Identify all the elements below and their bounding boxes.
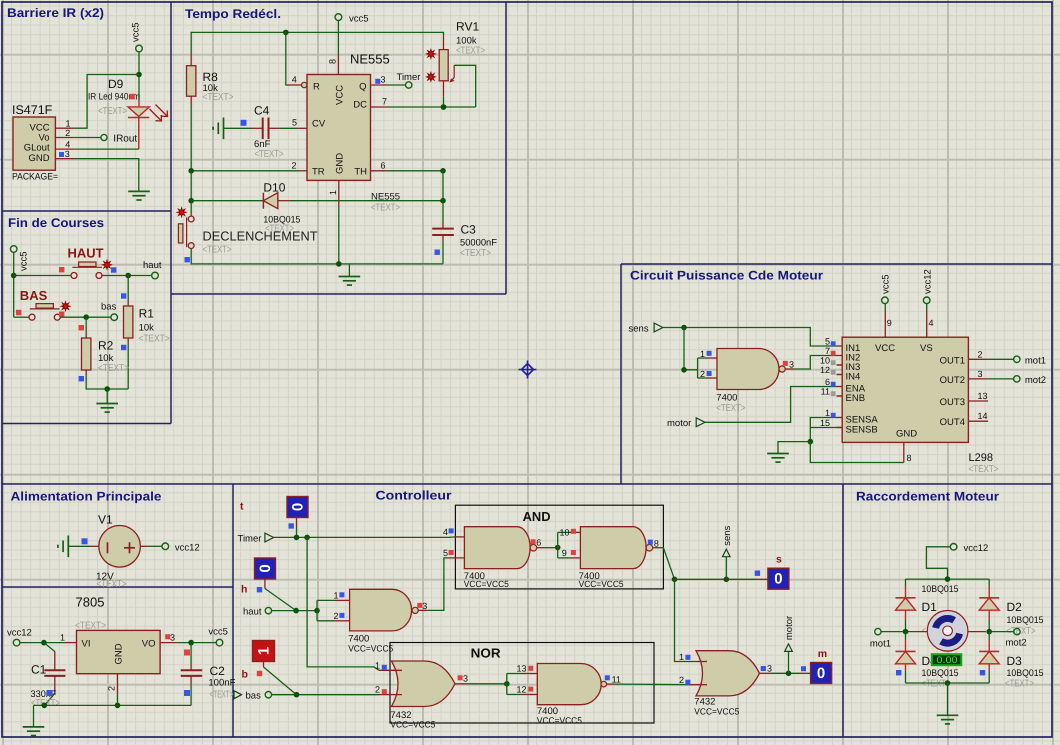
pin state squares R1: [121, 293, 126, 298]
section Controlleur right border: [842, 484, 844, 737]
svg-text:vcc12: vcc12: [922, 269, 933, 294]
ground (Racc): [937, 715, 959, 724]
pin state squares U4: [382, 665, 387, 670]
svg-text:R8: R8: [203, 70, 219, 84]
svg-text:OUT2: OUT2: [940, 375, 965, 386]
svg-text:12: 12: [517, 685, 527, 695]
junction: [441, 104, 447, 110]
svg-text:NE555: NE555: [350, 52, 390, 67]
wire gnd tap (CP): [778, 442, 810, 454]
junction: [945, 576, 951, 582]
svg-text:sens: sens: [722, 525, 733, 545]
pin state squares A1: [449, 528, 454, 533]
pin 1 L298: [825, 408, 842, 418]
wire pin8 GND L298: [810, 442, 898, 463]
power terminal vcc5 (Alim): [208, 627, 228, 646]
svg-text:R2: R2: [98, 339, 114, 353]
pin state squares U3: [339, 592, 344, 597]
wire vcc5 down: [13, 252, 15, 317]
wire gate3 input tie: [316, 600, 318, 620]
wire Timer to NOR gate: [307, 537, 379, 670]
diode D10: [191, 193, 290, 209]
input terminal sens (CP): [629, 323, 663, 334]
junction: [441, 104, 447, 110]
svg-text:3: 3: [381, 75, 386, 85]
svg-text:IN4: IN4: [846, 371, 861, 382]
svg-text:<TEXT>: <TEXT>: [98, 106, 127, 117]
junction: [136, 72, 142, 78]
wire switch to bottom rail: [191, 249, 443, 264]
svg-text:13: 13: [978, 391, 988, 401]
actuator star BAS: [61, 302, 70, 311]
svg-text:6: 6: [825, 377, 830, 387]
nand gate U2 7400 (CP): [706, 349, 794, 390]
wire TR down to trigger net: [190, 171, 192, 201]
pin 8 L298: [898, 442, 912, 463]
svg-text:h: h: [241, 584, 247, 596]
actuator star DECLENCHEMENT: [177, 208, 186, 217]
svg-text:3: 3: [767, 664, 772, 674]
svg-text:9: 9: [887, 318, 892, 328]
pin 3 7805 VO: [160, 632, 177, 642]
svg-text:50000nF: 50000nF: [460, 238, 497, 249]
svg-text:BAS: BAS: [20, 288, 48, 303]
power terminal vcc5 (Barriere): [131, 22, 143, 51]
svg-text:3: 3: [170, 632, 175, 642]
logic probe m: [799, 648, 832, 684]
junction: [188, 168, 194, 174]
svg-text:10: 10: [560, 528, 570, 538]
wire vcc5 to LED: [138, 52, 140, 101]
svg-text:mot2: mot2: [1006, 638, 1027, 649]
junction: [294, 535, 300, 541]
svg-text:Fin de Courses: Fin de Courses: [8, 216, 104, 230]
pin 1 NE555: [328, 180, 339, 207]
svg-text:vcc5: vcc5: [131, 22, 142, 42]
wire haut line: [272, 610, 317, 612]
svg-text:1: 1: [255, 647, 272, 655]
svg-text:VCC: VCC: [875, 343, 895, 354]
LED D9: [128, 101, 168, 121]
svg-text:NOR: NOR: [471, 646, 502, 661]
wire VCC pin to vcc5 rail: [75, 75, 139, 129]
input terminal motor (CP): [667, 418, 705, 429]
wire HAUT to haut terminal: [102, 275, 152, 277]
svg-text:3: 3: [463, 674, 468, 684]
svg-text:VCC=VCC5: VCC=VCC5: [694, 706, 739, 716]
svg-text:14: 14: [978, 411, 988, 421]
nand gate U3 7400 (Controlleur): [335, 589, 428, 631]
svg-text:4: 4: [929, 318, 934, 328]
svg-text:Alimentation Principale: Alimentation Principale: [11, 490, 162, 504]
pin state squares probe m: [761, 666, 766, 671]
resistor R8: [187, 53, 196, 104]
wire top rail R8-RV1: [191, 32, 443, 53]
svg-text:haut: haut: [243, 607, 262, 618]
junction: [504, 681, 510, 687]
svg-text:1: 1: [328, 190, 338, 195]
pin 2 TR NE555: [292, 161, 308, 171]
svg-text:VCC=VCC5: VCC=VCC5: [348, 643, 393, 653]
terminal mot2 (Racc): [1006, 628, 1027, 648]
junction: [11, 273, 17, 279]
section divider Fin de Courses bottom: [2, 423, 171, 425]
diode D4: [896, 632, 916, 683]
svg-text:VO: VO: [142, 639, 156, 650]
svg-text:VS: VS: [920, 343, 933, 354]
svg-text:R: R: [313, 82, 320, 93]
svg-text:5: 5: [292, 118, 297, 128]
junction: [283, 30, 289, 36]
pin 6 TH NE555: [371, 161, 388, 171]
ground (Fin): [96, 404, 118, 413]
pin 11 L298: [821, 387, 843, 397]
svg-text:1: 1: [334, 591, 339, 601]
wire ENB stub: [837, 395, 843, 397]
wire vcc5 to BAS: [14, 316, 29, 318]
pin 3 Q NE555: [371, 75, 388, 86]
pin state square D9: [130, 94, 135, 99]
power terminal vcc12 (CP): [922, 269, 933, 311]
svg-text:sens: sens: [629, 324, 649, 335]
svg-text:10: 10: [820, 356, 830, 366]
svg-text:Timer: Timer: [238, 534, 262, 545]
wire gnd to C4: [224, 127, 253, 129]
svg-text:D10: D10: [263, 181, 285, 195]
svg-text:2: 2: [978, 349, 983, 359]
pin state squares BAS: [16, 310, 21, 315]
wire R1 bottom: [127, 344, 129, 389]
wire sens to IN1: [663, 328, 837, 347]
svg-text:<TEXT>: <TEXT>: [98, 363, 129, 374]
AND sub-box: [455, 505, 663, 589]
ground (Alim): [23, 705, 45, 735]
chip L298: [842, 337, 968, 442]
svg-text:IRout: IRout: [113, 134, 137, 145]
power terminal vcc5 (Tempo): [335, 14, 369, 25]
svg-text:Tempo Redécl.: Tempo Redécl.: [185, 7, 281, 21]
wire sens to gate inputs: [684, 328, 698, 370]
section horizontal divider y=484: [2, 483, 1052, 485]
pin state square C2: [184, 690, 190, 696]
power terminal vcc5 (Fin): [10, 246, 29, 271]
junction: [42, 703, 48, 709]
pin state square D3: [980, 670, 985, 675]
svg-text:11: 11: [821, 387, 830, 397]
pin 4 VS L298: [927, 311, 934, 337]
wire top rail (Racc): [906, 578, 990, 580]
power terminal vcc12 (7805): [7, 628, 32, 646]
svg-text:8: 8: [328, 59, 338, 64]
svg-text:GND: GND: [114, 643, 125, 664]
wire OUT2 to mot2: [988, 378, 1013, 380]
resistor R1: [124, 300, 133, 344]
potentiometer RV1: [439, 36, 454, 96]
wire BAS to bas terminal: [60, 316, 111, 318]
diode D3: [979, 632, 999, 683]
junction: [304, 535, 310, 541]
power terminal vcc12 (Racc): [950, 543, 988, 554]
terminal mot1 (CP): [1014, 355, 1046, 366]
svg-text:<TEXT>: <TEXT>: [969, 464, 999, 475]
probe t stub: [296, 518, 298, 538]
pin state squares VO: [165, 634, 170, 639]
svg-text:motor: motor: [784, 616, 795, 640]
wire C4 to CV: [280, 127, 297, 129]
pin state square V1: [82, 538, 88, 544]
section Tempo right border: [505, 2, 507, 294]
motor M1: [927, 611, 968, 652]
svg-text:3: 3: [422, 601, 427, 611]
diode D2: [979, 579, 999, 632]
junction: [314, 608, 320, 614]
wire LED cathode to GLout net: [138, 118, 140, 150]
svg-text:2: 2: [375, 685, 380, 695]
output arrow sens (Controlleur): [722, 525, 733, 579]
svg-text:<TEXT>: <TEXT>: [456, 46, 485, 57]
chip NE555: [307, 75, 371, 181]
wire gate out to IN2: [794, 356, 837, 370]
wire reset line down: [286, 32, 288, 85]
svg-text:2: 2: [700, 369, 705, 379]
svg-text:b: b: [242, 669, 248, 681]
diode D1: [896, 579, 916, 632]
wire OUT1 to mot1: [988, 358, 1013, 360]
wire SENSB stub: [837, 427, 843, 429]
actuator stars RV1: [426, 49, 435, 58]
svg-text:0: 0: [289, 503, 306, 511]
svg-text:t: t: [240, 501, 244, 513]
pin 4 R bubble: [288, 75, 307, 88]
pin 3 OUT2 L298: [968, 369, 988, 379]
actuator star HAUT: [102, 260, 111, 269]
svg-text:D2: D2: [1007, 600, 1023, 614]
input terminal Timer (Controlleur): [238, 533, 274, 544]
pin state square C1: [47, 690, 53, 696]
wire GLout: [75, 148, 139, 150]
pin 13 OUT3 L298: [968, 391, 988, 401]
pin state squares U6: [685, 655, 690, 660]
wire DC line: [387, 106, 476, 108]
pin state square DECLENCHEMENT: [185, 257, 190, 262]
wire pin1 to gnd rail: [338, 207, 340, 264]
svg-text:Raccordement Moteur: Raccordement Moteur: [856, 490, 999, 504]
svg-text:Timer: Timer: [397, 72, 421, 83]
svg-text:AND: AND: [523, 509, 551, 524]
pin state squares gate CP: [707, 351, 712, 356]
pin 9 VCC L298: [885, 311, 892, 337]
NOR sub-box: [390, 643, 654, 724]
terminal Timer (Tempo): [397, 72, 421, 88]
svg-text:bas: bas: [246, 691, 262, 702]
wire Timer line: [274, 536, 456, 539]
input arrow bas: [234, 691, 242, 699]
section Alimentation divider: [2, 586, 233, 588]
svg-text:D3: D3: [1007, 654, 1023, 668]
ground rotated (C4): [213, 118, 223, 140]
button DECLENCHEMENT: [178, 201, 194, 249]
wire U4 out to U5: [470, 683, 507, 685]
wire gnd to V1: [68, 545, 92, 547]
chip 7805: [77, 630, 161, 673]
ground rotated (V1): [58, 536, 68, 558]
svg-text:7805: 7805: [76, 595, 105, 610]
pin state square C3: [435, 250, 440, 255]
svg-text:<TEXT>: <TEXT>: [1005, 679, 1034, 690]
pin state squares R2: [79, 325, 84, 330]
wire pin2 to rail: [117, 694, 119, 706]
svg-text:vcc12: vcc12: [964, 543, 989, 554]
svg-text:13: 13: [517, 664, 527, 674]
terminal mot1 (Racc): [870, 628, 891, 649]
output arrow motor (Controlleur): [784, 616, 795, 673]
svg-text:5: 5: [443, 548, 448, 558]
svg-text:mot2: mot2: [1025, 375, 1046, 386]
wire mot1 to bridge: [881, 631, 905, 633]
wire gate input tie bar: [697, 358, 699, 378]
junction: [945, 680, 951, 686]
wire R2 bottom rail: [86, 376, 128, 389]
junction: [440, 198, 446, 204]
ground (Barriere): [128, 191, 150, 200]
svg-text:11: 11: [612, 675, 621, 685]
svg-text:m: m: [818, 648, 827, 660]
svg-text:DECLENCHEMENT: DECLENCHEMENT: [203, 229, 318, 244]
capacitor C2: [181, 643, 203, 706]
motor pins: [908, 631, 986, 633]
wire SENSA/SENSB to gnd: [810, 418, 836, 442]
svg-text:<TEXT>: <TEXT>: [255, 149, 284, 160]
svg-text:10BQ015: 10BQ015: [1007, 615, 1044, 626]
pin state square C4: [241, 120, 247, 126]
wire VO to vcc5: [177, 642, 216, 644]
ground (Tempo): [339, 264, 361, 285]
svg-text:Circuit Puissance Cde Moteur: Circuit Puissance Cde Moteur: [630, 269, 823, 283]
wire A1 out to A2: [544, 547, 558, 549]
voltage display: [932, 654, 962, 666]
svg-text:IS471F: IS471F: [12, 103, 53, 117]
or gate U6 7432 (Controlleur): [691, 651, 771, 696]
svg-text:VCC: VCC: [335, 85, 346, 105]
svg-text:C2: C2: [210, 664, 226, 678]
junction: [104, 386, 110, 392]
svg-text:C4: C4: [254, 104, 270, 118]
junction: [808, 439, 814, 445]
section Circuit Puissance top border: [621, 263, 1052, 265]
wire IN3 stub: [837, 364, 843, 366]
wire bridge to mot2: [989, 631, 1014, 633]
section divider Barriere/Tempo vertical: [170, 2, 172, 424]
svg-text:3: 3: [978, 369, 983, 379]
logic probe h: [241, 558, 276, 596]
wire bottom rail (Alim): [34, 704, 192, 706]
svg-text:GND: GND: [28, 153, 49, 164]
svg-text:motor: motor: [667, 418, 691, 429]
svg-text:2: 2: [65, 128, 70, 138]
pin 14 OUT4 L298: [968, 411, 988, 421]
svg-text:GND: GND: [335, 153, 346, 174]
wire A2 out diagonal: [663, 548, 674, 580]
svg-text:D9: D9: [108, 77, 124, 91]
svg-text:VCC=VCC5: VCC=VCC5: [390, 719, 435, 729]
pin state squares U5: [528, 666, 533, 671]
svg-text:1: 1: [679, 652, 684, 662]
chip IS471F: [13, 117, 55, 170]
svg-text:9: 9: [562, 548, 567, 558]
pin state square probe t: [289, 523, 294, 528]
svg-text:100nF: 100nF: [208, 678, 235, 689]
svg-text:4: 4: [292, 75, 297, 85]
battery V1: [92, 526, 147, 568]
section divider Barriere bottom: [2, 210, 171, 212]
svg-text:V1: V1: [98, 513, 113, 527]
wire to R1: [127, 276, 129, 301]
wire bas line: [272, 694, 379, 696]
svg-text:vcc12: vcc12: [175, 543, 200, 554]
junction: [903, 629, 909, 635]
wire D10 to TH net: [290, 200, 443, 202]
svg-text:6: 6: [536, 538, 541, 548]
svg-text:bas: bas: [101, 302, 117, 313]
terminal haut (Fin): [143, 260, 162, 279]
capacitor C4: [252, 118, 280, 140]
wire Vo to IRout: [75, 137, 101, 139]
power terminal vcc12 (V1): [162, 543, 200, 554]
capacitor C1: [44, 643, 66, 706]
junction: [115, 703, 121, 709]
svg-text:1: 1: [700, 349, 705, 359]
wire bottom rail (Racc): [906, 682, 990, 684]
origin marker: [519, 361, 537, 379]
junction: [83, 314, 89, 320]
wire U5 input tie: [506, 674, 508, 695]
wire vcc5 to HAUT: [14, 275, 71, 277]
junction: [188, 640, 194, 646]
svg-text:OUT3: OUT3: [940, 397, 965, 408]
nand gate U5 7400 (NOR box): [523, 664, 614, 705]
pin 5 L298: [825, 337, 842, 347]
svg-text:5: 5: [825, 337, 830, 347]
resistor R2: [82, 332, 91, 376]
or gate U4 7432 (NOR box): [379, 661, 470, 707]
pin 12 L298: [820, 365, 842, 375]
svg-text:vcc5: vcc5: [349, 14, 369, 25]
wire IN4 stub: [837, 374, 843, 376]
wire V1 to vcc12: [147, 545, 162, 547]
wire vcc12 to bridge: [926, 547, 950, 579]
terminal bas (Controlleur): [246, 691, 272, 702]
pin 1 IS471F: [55, 119, 74, 129]
svg-text:12: 12: [820, 365, 830, 375]
wire R8 bottom to TR: [190, 104, 192, 171]
wire vcc12 to VI: [20, 642, 65, 644]
svg-text:PACKAGE=: PACKAGE=: [12, 172, 58, 183]
section Tempo bottom border: [171, 293, 506, 295]
pin 7 L298: [825, 346, 842, 356]
junction: [440, 168, 446, 174]
svg-text:vcc5: vcc5: [19, 251, 30, 271]
svg-text:OUT4: OUT4: [940, 417, 965, 428]
pin 4 IS471F: [55, 139, 74, 149]
svg-text:10k: 10k: [139, 323, 155, 334]
svg-text:VI: VI: [82, 639, 91, 650]
nand gate A1 7400 (AND box): [448, 527, 544, 569]
svg-text:2: 2: [292, 161, 297, 171]
terminal mot2 (CP): [1014, 375, 1046, 386]
svg-text:10BQ015: 10BQ015: [922, 584, 959, 595]
pin state square probe s: [755, 571, 760, 576]
svg-text:<TEXT>: <TEXT>: [97, 579, 127, 590]
